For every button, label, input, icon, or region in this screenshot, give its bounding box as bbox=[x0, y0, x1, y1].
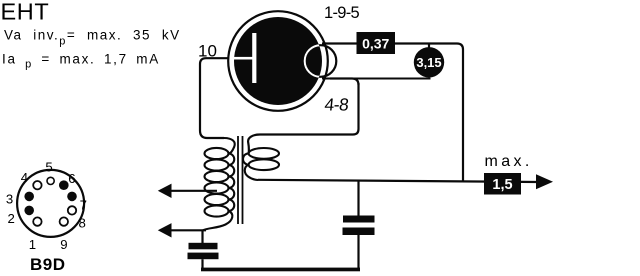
ground bus bbox=[201, 268, 360, 272]
svg-text:10: 10 bbox=[198, 42, 217, 61]
svg-text:B9D: B9D bbox=[30, 255, 66, 274]
wire cathode to heater winding bbox=[248, 83, 358, 153]
transformer T1 heater winding bbox=[243, 148, 279, 180]
capacitor C2 plates bbox=[343, 216, 375, 223]
pin 5 bbox=[47, 177, 54, 184]
stub to voltage circle top bbox=[428, 44, 430, 48]
svg-text:3,15: 3,15 bbox=[416, 55, 441, 70]
pin 2 bbox=[24, 206, 34, 216]
wire filament top to current box and down bbox=[322, 44, 463, 182]
tube V1 envelope bbox=[228, 11, 328, 111]
pin 8 bbox=[68, 206, 76, 214]
svg-text:1: 1 bbox=[29, 237, 36, 252]
pin 9 bbox=[60, 217, 68, 225]
pin 6 bbox=[59, 180, 69, 190]
svg-text:9: 9 bbox=[60, 237, 67, 252]
capacitor C1 plates bbox=[189, 243, 218, 250]
filament circle (white stroke over disc) bbox=[305, 45, 337, 77]
base diagram B9D outline bbox=[17, 170, 84, 237]
transformer core bbox=[238, 136, 243, 224]
capacitor C1 lower lead bbox=[201, 259, 203, 269]
wire filament bottom bbox=[322, 78, 431, 80]
current box 1,5 bbox=[484, 173, 521, 195]
current box 0,37 bbox=[357, 32, 396, 54]
capacitor C2 lower lead bbox=[357, 235, 359, 269]
svg-text:2: 2 bbox=[8, 211, 15, 226]
svg-text:max.: max. bbox=[485, 153, 533, 170]
svg-text:0,37: 0,37 bbox=[362, 36, 389, 52]
svg-text:4: 4 bbox=[21, 170, 28, 185]
pin 1 bbox=[33, 217, 41, 225]
anode lead inside disc (white) bbox=[233, 57, 254, 60]
pin 4 bbox=[33, 181, 41, 189]
svg-text:5: 5 bbox=[45, 160, 52, 175]
svg-text:6: 6 bbox=[68, 171, 75, 186]
pin 7 bbox=[67, 192, 77, 202]
output arrow bbox=[536, 174, 553, 189]
tap arrow upper bbox=[158, 184, 172, 198]
pin 3 bbox=[24, 192, 34, 202]
svg-text:1-9-5: 1-9-5 bbox=[324, 4, 360, 22]
svg-text:EHT: EHT bbox=[1, 0, 50, 25]
capacitor C1 lead bbox=[201, 231, 203, 244]
voltage circle 3,15 bbox=[414, 47, 444, 77]
svg-text:1,5: 1,5 bbox=[492, 177, 512, 193]
wire anode lead from node 10 bbox=[200, 58, 235, 138]
capacitor C2 lead bbox=[357, 181, 359, 216]
svg-text:4-8: 4-8 bbox=[324, 95, 350, 115]
anode plate bar (white) bbox=[252, 33, 256, 83]
svg-text:8: 8 bbox=[79, 216, 86, 231]
filament circle (black stroke outside disc) bbox=[305, 45, 337, 77]
svg-text:7: 7 bbox=[80, 197, 87, 212]
tap arrow lower bbox=[158, 223, 172, 237]
output line EHT bbox=[258, 180, 537, 182]
transformer T1 primary winding bbox=[203, 138, 235, 231]
svg-text:3: 3 bbox=[6, 192, 13, 207]
tube V1 black disc bbox=[234, 17, 322, 105]
